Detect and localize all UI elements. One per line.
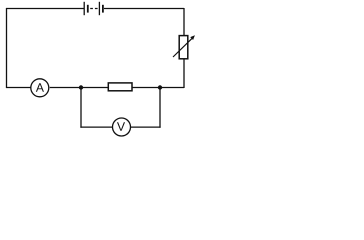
voltmeter V1 label "V" bbox=[117, 122, 125, 130]
battery B1 long plate 1 bbox=[83, 2, 85, 15]
voltmeter V1 circle bbox=[113, 118, 131, 136]
wire branch up to right junction bbox=[159, 88, 161, 128]
battery B1 dashed link bbox=[90, 8, 98, 10]
wire middle resistor to right corner bbox=[132, 87, 184, 89]
variable resistor R2 arrowhead bbox=[190, 35, 195, 40]
battery B1 short plate 2 bbox=[102, 5, 104, 13]
wire top-right (battery to right corner) bbox=[104, 8, 184, 10]
junction node left bbox=[79, 85, 83, 89]
variable resistor R2 body bbox=[179, 36, 188, 59]
wire left side bbox=[6, 8, 8, 88]
battery B1 long plate 2 bbox=[98, 2, 100, 15]
wire bottom voltmeter to right bbox=[131, 126, 161, 128]
junction node right bbox=[158, 85, 162, 89]
wire top-left (battery to left corner) bbox=[6, 8, 84, 10]
wire bottom left of voltmeter bbox=[80, 126, 112, 128]
variable resistor R2 arrow shaft bbox=[173, 38, 192, 57]
battery B1 short plate 1 bbox=[87, 5, 89, 13]
wire right side below rheostat bbox=[183, 59, 185, 88]
ammeter A1 label "A" bbox=[36, 83, 44, 91]
wire branch down from left junction bbox=[80, 88, 82, 128]
wire right side above rheostat bbox=[183, 8, 185, 36]
ammeter A1 circle bbox=[31, 79, 49, 97]
wire middle ammeter to resistor bbox=[50, 87, 109, 89]
wire middle left of ammeter bbox=[6, 87, 31, 89]
resistor R1 body bbox=[108, 83, 132, 91]
